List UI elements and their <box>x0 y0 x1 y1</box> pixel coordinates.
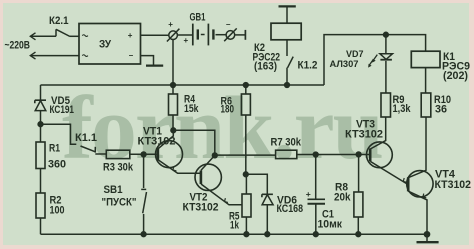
resistor R10 <box>421 93 431 117</box>
switch K1.1 <box>81 146 96 153</box>
label 10mk <box>318 218 343 230</box>
label - at connector X2 <box>226 20 231 29</box>
switch K2.1 <box>56 29 70 36</box>
label + at battery <box>184 36 189 45</box>
node VD5-K1.1 <box>38 122 43 127</box>
wire R7 to VT3 base <box>297 154 370 156</box>
resistor R5 <box>242 174 251 234</box>
label R2 <box>50 195 62 207</box>
charger unit ZU box <box>79 24 141 65</box>
wire bus corner up to top-right rail <box>324 35 426 85</box>
svg-text:GB1: GB1 <box>190 12 206 24</box>
wire connector to battery <box>177 34 192 36</box>
label R3 30k <box>103 162 133 174</box>
wire K1 to R10 <box>425 68 427 93</box>
watermark fornk.ru <box>62 78 382 178</box>
svg-text:15k: 15k <box>184 103 199 115</box>
wire R4 bottom node <box>173 85 215 155</box>
node R8-bus <box>356 232 361 237</box>
label K2 <box>254 42 265 54</box>
svg-text:ЗУ: ЗУ <box>99 39 111 51</box>
LED VD7 <box>368 35 392 68</box>
label VT3 <box>356 119 375 131</box>
wire ~220V bottom input line <box>30 52 79 59</box>
label 1k <box>230 220 239 232</box>
label K1.1 <box>75 132 97 144</box>
label R1 <box>49 143 60 155</box>
label K2.1 <box>49 15 69 27</box>
label RES22 <box>253 51 281 63</box>
node VT4 emitter-bus <box>424 232 429 237</box>
charger polarity marks <box>82 31 133 60</box>
label 15k <box>184 103 199 115</box>
wire R10 to VT4 collector <box>409 117 427 178</box>
connector X1 (+) <box>167 29 180 42</box>
transistor VT1 <box>156 130 201 173</box>
wire bottom bus <box>41 233 428 235</box>
label K1.2 <box>298 59 318 71</box>
wire K1.1 branch <box>41 124 77 144</box>
label GB1 <box>190 12 206 24</box>
node VD6-bus <box>265 232 270 237</box>
node reference R6-R5-VD6 <box>243 172 248 177</box>
wire charger - output <box>141 56 154 66</box>
label VT4 <box>435 169 455 181</box>
svg-text:20k: 20k <box>334 191 351 203</box>
transistor VT2 <box>195 155 242 204</box>
node R3-S81 <box>141 152 146 157</box>
svg-text:(202): (202) <box>443 70 468 82</box>
label R8 <box>335 182 348 194</box>
zener VD5 <box>35 85 46 142</box>
resistor R1 <box>36 142 45 169</box>
label S81 <box>104 184 123 196</box>
label (202) <box>443 70 468 82</box>
svg-text:"ПУСК": "ПУСК" <box>102 196 137 208</box>
svg-text:R1: R1 <box>49 143 60 155</box>
node VT2 collector <box>212 153 217 158</box>
wire R3 to VT1 base <box>130 153 157 155</box>
svg-text:КТ3102: КТ3102 <box>345 128 383 140</box>
node C1-bus <box>313 232 318 237</box>
battery GB1 <box>193 24 226 46</box>
label VD5 <box>51 95 70 107</box>
wire R2 to bottom bus <box>40 218 42 234</box>
svg-text:КТ3102: КТ3102 <box>183 201 219 213</box>
label RES9 <box>442 61 470 73</box>
relay K1 coil <box>411 51 440 67</box>
switch S81 <box>141 189 146 234</box>
label 180 <box>221 104 235 116</box>
wire K2 to switch K1.2 <box>286 40 288 56</box>
svg-text:КТ3102: КТ3102 <box>138 135 176 147</box>
label KT3102 VT2 <box>183 201 219 213</box>
svg-text:R7 30k: R7 30k <box>271 137 302 149</box>
wire to charger <box>70 35 79 37</box>
relay K2 coil <box>271 23 301 40</box>
svg-text:+: + <box>168 20 173 29</box>
label R5 <box>229 211 240 223</box>
node bus-K1.2 <box>285 83 290 88</box>
label 1,3k <box>393 103 411 115</box>
label ZU <box>99 39 111 51</box>
node R8 top <box>356 152 361 157</box>
svg-text:+: + <box>128 31 133 40</box>
wire charger + output <box>141 34 169 36</box>
connector X2 (-) <box>224 28 237 41</box>
wire battery output terminal <box>235 30 246 40</box>
resistor R6 <box>241 85 250 115</box>
node rail-VD7 <box>384 32 389 37</box>
svg-text:R3 30k: R3 30k <box>103 162 133 174</box>
label R4 <box>184 94 195 106</box>
wire VT2 collector to R7 <box>215 154 276 156</box>
svg-text:+: + <box>184 36 189 45</box>
label K1 <box>443 51 455 63</box>
resistor R9 <box>381 93 391 117</box>
svg-text:КТ3102: КТ3102 <box>435 179 472 191</box>
wire R4 lead <box>172 115 174 130</box>
label PUSK <box>102 196 137 208</box>
svg-text:~220В: ~220В <box>5 40 31 52</box>
svg-text:К2.1: К2.1 <box>49 15 69 27</box>
node S81-bus <box>141 232 146 237</box>
label KS191 <box>50 104 75 116</box>
label KT3102 VT1 <box>138 135 176 147</box>
node R4-VT1 collector <box>171 128 176 133</box>
svg-text:КС168: КС168 <box>277 203 304 215</box>
svg-text:К1.1: К1.1 <box>75 132 97 144</box>
node bus-R6 <box>243 83 248 88</box>
wire node down to S81 <box>143 154 145 188</box>
svg-text:1,3k: 1,3k <box>393 103 411 115</box>
svg-text:–: – <box>129 51 134 60</box>
svg-text:SВ1: SВ1 <box>104 184 123 196</box>
transistor VT3 <box>367 142 408 184</box>
svg-text:–: – <box>226 20 231 29</box>
svg-text:180: 180 <box>221 104 235 116</box>
label + at connector X1 <box>168 20 173 29</box>
label VD6 <box>277 194 297 206</box>
svg-text:К1.2: К1.2 <box>298 59 318 71</box>
label 36 <box>435 104 447 116</box>
label ~220V <box>5 40 31 52</box>
resistor R3 <box>106 150 130 158</box>
label R7 30k <box>271 137 302 149</box>
label VT2 <box>190 192 208 204</box>
node bus-R4 <box>171 83 176 88</box>
zener VD6 <box>262 194 273 234</box>
ground (bottom right) <box>417 234 439 242</box>
svg-text:1k: 1k <box>230 220 239 232</box>
wire R6 down to reference node <box>245 115 247 174</box>
svg-text:100: 100 <box>50 205 65 217</box>
svg-text:VD7: VD7 <box>346 49 364 59</box>
switch K1.2 <box>287 57 293 85</box>
label R9 <box>393 94 405 106</box>
svg-text:АЛ307: АЛ307 <box>330 59 359 69</box>
resistor R8 <box>354 154 363 234</box>
svg-text:10мк: 10мк <box>318 218 343 230</box>
label VD7 <box>346 49 364 59</box>
label VT1 <box>143 126 162 138</box>
capacitor C1 <box>306 155 325 235</box>
resistor R7 <box>276 150 297 158</box>
node C1 top <box>313 152 318 157</box>
label KT3102 VT4 <box>435 179 472 191</box>
wire main bus <box>41 84 325 86</box>
label R6 <box>221 96 233 108</box>
wire R1 to R2 <box>40 169 42 194</box>
svg-text:+: + <box>306 189 311 199</box>
wire VD7 to R9 <box>385 61 387 93</box>
svg-text:36: 36 <box>435 104 447 116</box>
label R10 <box>434 94 451 106</box>
svg-text:(163): (163) <box>254 61 277 73</box>
label (163) <box>254 61 277 73</box>
wire K1.1 to R3 <box>95 153 106 155</box>
wire ~220V top input line <box>30 33 56 40</box>
wire node to VD6 <box>246 174 267 194</box>
label C1 <box>322 209 334 221</box>
label 20k <box>334 191 351 203</box>
svg-text:360: 360 <box>48 159 66 171</box>
resistor R2 <box>36 193 45 218</box>
label KT3102 VT3 <box>345 128 383 140</box>
transistor VT4 <box>407 171 433 235</box>
terminal bar above relay K2 <box>279 6 296 23</box>
node R5-bus <box>244 232 249 237</box>
label AL307 <box>330 59 359 69</box>
ground (charger output) <box>146 64 163 66</box>
svg-text:КС191: КС191 <box>50 104 75 116</box>
wire connector X1 down to bus <box>172 40 174 86</box>
label 360 <box>48 159 66 171</box>
wire R9 to VT3 collector <box>371 117 386 149</box>
label 100 <box>50 205 65 217</box>
resistor R4 <box>169 94 178 115</box>
label KS168 <box>277 203 304 215</box>
